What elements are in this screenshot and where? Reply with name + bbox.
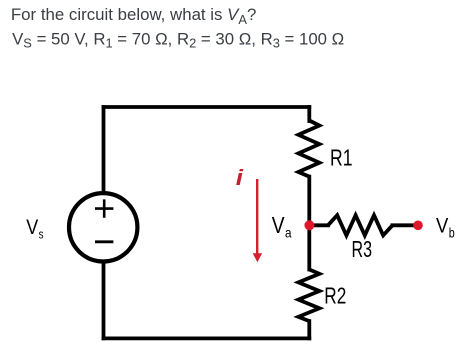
- voltage source plus sign: [95, 199, 113, 217]
- svg-text:Va: Va: [272, 212, 292, 241]
- wire node A to R2: [307, 225, 311, 269]
- svg-text:R2: R2: [324, 282, 346, 308]
- wire R1 to node A: [307, 177, 311, 226]
- wire R3 to node B: [392, 223, 413, 227]
- svg-text:i: i: [236, 165, 244, 190]
- wire bottom horizontal: [104, 336, 310, 340]
- wire R2 to bottom: [307, 321, 311, 338]
- svg-text:Vb: Vb: [436, 214, 455, 241]
- voltage source minus sign: [95, 240, 113, 243]
- current arrow i line: [256, 179, 258, 254]
- wire right upper vertical: [307, 107, 311, 121]
- svg-text:R3: R3: [352, 236, 373, 262]
- resistor R2: [298, 270, 319, 322]
- wire left upper vertical: [102, 107, 106, 193]
- resistor R1: [298, 121, 319, 177]
- wire top horizontal: [104, 105, 310, 109]
- wire node A to R3: [309, 223, 328, 227]
- svg-text:VS = 50 V, R1 = 70 Ω, R2 = 30: VS = 50 V, R1 = 70 Ω, R2 = 30 Ω, R3 = 10…: [12, 29, 344, 50]
- svg-text:R1: R1: [330, 145, 353, 171]
- wire left lower vertical: [102, 261, 106, 338]
- resistor R3: [328, 215, 392, 235]
- svg-text:Vs: Vs: [26, 216, 44, 242]
- svg-text:For the circuit below, what is: For the circuit below, what is VA?: [11, 5, 256, 27]
- node A dot: [304, 220, 314, 230]
- voltage source Vs circle: [69, 193, 137, 261]
- current arrow i head: [253, 253, 262, 262]
- node B dot: [413, 221, 423, 231]
